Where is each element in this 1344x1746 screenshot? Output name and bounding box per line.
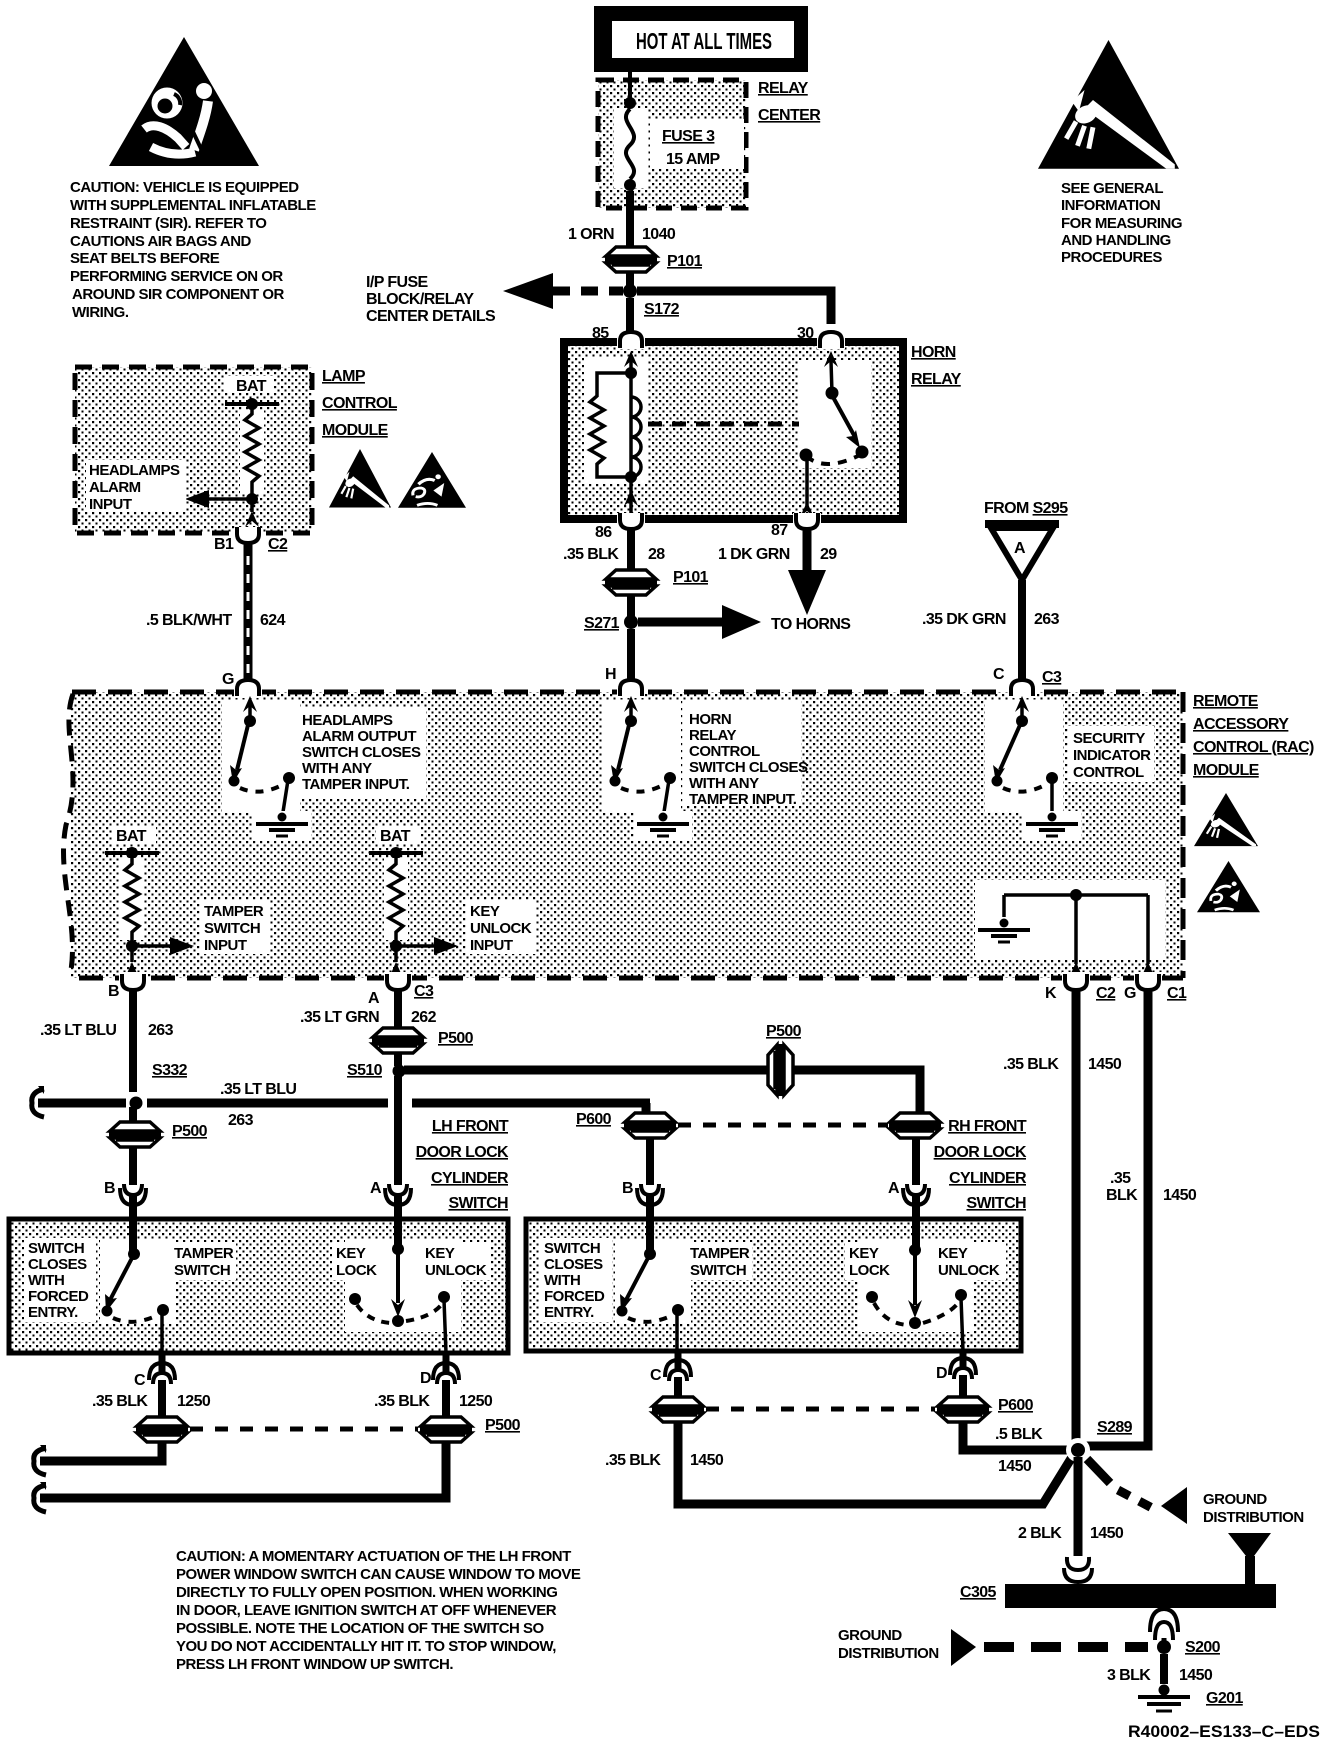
label HEADLAMPS ALARM INPUT xyxy=(86,460,186,513)
svg-text:CAUTION: VEHICLE IS EQUIPPED: CAUTION: VEHICLE IS EQUIPPED xyxy=(70,179,299,196)
svg-text:C305: C305 xyxy=(960,1584,997,1601)
label switch closes with forced entry (LH) xyxy=(24,1238,96,1322)
lamp module resistor xyxy=(240,404,264,499)
wire .35 DK GRN 263 xyxy=(922,580,1060,681)
wire P101 to S172 xyxy=(626,272,634,291)
label key unlock (LH) xyxy=(421,1242,491,1280)
svg-text:AND HANDLING: AND HANDLING xyxy=(1061,232,1171,249)
svg-text:YOU DO NOT ACCIDENTALLY HIT IT: YOU DO NOT ACCIDENTALLY HIT IT. TO STOP … xyxy=(176,1638,556,1655)
connector P101 (top) xyxy=(605,247,703,272)
esd triangle pair near lamp module xyxy=(329,449,391,508)
dashed link P500 pinC-pinD xyxy=(190,1427,418,1432)
svg-text:CLOSES: CLOSES xyxy=(28,1256,87,1273)
svg-text:A: A xyxy=(370,1180,382,1197)
svg-text:DISTRIBUTION: DISTRIBUTION xyxy=(838,1645,939,1662)
relay mechanical link (dashed) xyxy=(648,422,820,427)
wire C305 to S200 xyxy=(1162,1638,1167,1644)
svg-text:BAT: BAT xyxy=(236,378,267,395)
svg-text:S332: S332 xyxy=(152,1062,188,1079)
C305 connector bar xyxy=(960,1584,1276,1608)
svg-text:C: C xyxy=(134,1372,146,1389)
svg-text:CENTER DETAILS: CENTER DETAILS xyxy=(366,308,496,325)
connector bumps below C305 xyxy=(1150,1609,1178,1640)
svg-text:MODULE: MODULE xyxy=(1193,762,1260,779)
svg-text:CENTER: CENTER xyxy=(758,107,821,124)
svg-text:ACCESSORY: ACCESSORY xyxy=(1193,716,1289,733)
pin A (LH box) xyxy=(370,1180,411,1205)
rac switch 2 (horn relay control) xyxy=(603,696,681,812)
note triangle near lamp module xyxy=(398,452,466,508)
key lock switch (RH) xyxy=(858,1219,974,1351)
svg-text:FROM S295: FROM S295 xyxy=(984,500,1068,517)
wire 3 BLK 1450 xyxy=(1107,1654,1213,1684)
dashed link P600 pinC-pinD xyxy=(706,1407,935,1412)
label tamper switch (RH) xyxy=(686,1242,752,1280)
wire pin C to left hook xyxy=(34,1441,162,1475)
svg-text:.35 DK GRN: .35 DK GRN xyxy=(922,611,1006,628)
sir caution triangle xyxy=(109,37,259,166)
svg-text:P600: P600 xyxy=(998,1397,1034,1414)
svg-text:TAMPER INPUT.: TAMPER INPUT. xyxy=(302,776,410,793)
svg-text:624: 624 xyxy=(260,612,286,629)
svg-text:263: 263 xyxy=(148,1022,174,1039)
svg-text:WITH: WITH xyxy=(544,1272,580,1289)
tamper switch (RH) xyxy=(615,1219,691,1351)
label I/P FUSE BLOCK/RELAY CENTER DETAILS xyxy=(366,274,496,325)
wire S510 right run xyxy=(404,1070,920,1113)
pin 30 xyxy=(797,325,845,349)
svg-text:INPUT: INPUT xyxy=(89,496,132,513)
wire S271 to pin H xyxy=(627,629,635,681)
wire 1 ORN 1040 xyxy=(626,191,634,247)
pin A / C3 (bottom) xyxy=(368,972,434,1007)
svg-text:P600: P600 xyxy=(576,1111,612,1128)
svg-text:REMOTE: REMOTE xyxy=(1193,693,1259,710)
pin A (RH box) xyxy=(888,1180,929,1205)
svg-text:CONTROL: CONTROL xyxy=(322,395,398,412)
label tamper switch input xyxy=(200,900,270,954)
wire pin C .35 BLK 1250 xyxy=(92,1380,211,1418)
svg-text:BLK: BLK xyxy=(1106,1187,1138,1204)
ground (rac internal) xyxy=(975,917,1033,946)
splice S510 xyxy=(347,1052,406,1079)
headlamps alarm output node xyxy=(185,490,259,527)
svg-text:1450: 1450 xyxy=(690,1452,724,1469)
svg-text:C: C xyxy=(650,1367,662,1384)
svg-text:DOOR LOCK: DOOR LOCK xyxy=(416,1144,509,1161)
svg-text:262: 262 xyxy=(411,1009,437,1026)
wire pin C1 down (long) xyxy=(1086,988,1197,1446)
splice S332 xyxy=(130,1062,188,1110)
wire hook (left, S332 branch) xyxy=(32,1089,44,1117)
svg-text:KEY: KEY xyxy=(425,1245,455,1262)
key unlock input node xyxy=(389,937,458,978)
svg-text:R40002–ES133–C–EDS: R40002–ES133–C–EDS xyxy=(1128,1722,1320,1741)
power feed box HOT AT ALL TIMES xyxy=(594,6,808,72)
svg-text:WIRING.: WIRING. xyxy=(72,304,129,321)
esd triangle (rac) xyxy=(1194,793,1258,846)
svg-text:1450: 1450 xyxy=(1163,1187,1197,1204)
pin 85 xyxy=(592,325,645,349)
connector P600 (left half) xyxy=(576,1111,676,1138)
connector P600 (pin D) xyxy=(937,1375,1034,1422)
ground (rac switch 1) xyxy=(253,811,311,840)
wire pin D .35 BLK 1250 xyxy=(374,1380,493,1418)
svg-text:KEY: KEY xyxy=(849,1245,879,1262)
pin H (top) xyxy=(605,666,645,698)
svg-text:D: D xyxy=(420,1370,431,1387)
ground G201 xyxy=(1138,1685,1243,1712)
svg-text:BAT: BAT xyxy=(116,828,147,845)
svg-text:CYLINDER: CYLINDER xyxy=(949,1170,1027,1187)
svg-text:HORN: HORN xyxy=(689,711,731,728)
svg-text:1450: 1450 xyxy=(1090,1525,1124,1542)
svg-text:.35 LT BLU: .35 LT BLU xyxy=(220,1081,296,1098)
svg-text:TAMPER: TAMPER xyxy=(174,1245,234,1262)
arrow to horns xyxy=(638,605,851,639)
svg-text:CONTROL (RAC): CONTROL (RAC) xyxy=(1193,739,1314,756)
svg-text:LH FRONT: LH FRONT xyxy=(432,1118,509,1135)
svg-text:P101: P101 xyxy=(667,253,703,270)
label key lock (RH) xyxy=(845,1242,895,1280)
svg-text:SWITCH: SWITCH xyxy=(448,1195,508,1212)
arrow to I/P fuse block details xyxy=(503,273,623,309)
label switch closes with forced entry (RH) xyxy=(540,1238,612,1322)
svg-text:85: 85 xyxy=(592,325,609,342)
pin C (LH box bottom) xyxy=(134,1353,175,1389)
svg-text:ALARM OUTPUT: ALARM OUTPUT xyxy=(302,728,416,745)
svg-text:LOCK: LOCK xyxy=(336,1262,377,1279)
label key lock (LH) xyxy=(332,1242,382,1280)
svg-text:RELAY: RELAY xyxy=(911,371,962,388)
wire 1 DK GRN 29 to horns xyxy=(718,528,837,615)
svg-text:FUSE 3: FUSE 3 xyxy=(662,128,715,145)
svg-text:INDICATOR: INDICATOR xyxy=(1073,747,1151,764)
svg-text:MODULE: MODULE xyxy=(322,422,389,439)
svg-text:B1: B1 xyxy=(214,536,234,553)
wire .35 LT GRN 262 (pin A down) xyxy=(300,988,437,1028)
wire .5 BLK/WHT 624 xyxy=(146,543,286,681)
pin C (RH box bottom) xyxy=(650,1351,691,1384)
connector P600 (pin C) xyxy=(652,1377,704,1422)
svg-text:.5 BLK/WHT: .5 BLK/WHT xyxy=(146,612,232,629)
arrow from ground distribution (lower) xyxy=(838,1627,1148,1666)
svg-text:K: K xyxy=(1045,985,1057,1002)
svg-text:SEAT BELTS BEFORE: SEAT BELTS BEFORE xyxy=(70,250,220,267)
svg-text:INPUT: INPUT xyxy=(470,937,513,954)
svg-text:ENTRY.: ENTRY. xyxy=(544,1304,594,1321)
wire C1 leg into S289 xyxy=(1086,1442,1148,1446)
svg-text:C: C xyxy=(993,666,1005,683)
svg-text:CYLINDER: CYLINDER xyxy=(431,1170,509,1187)
wire pin K down (long) xyxy=(1003,988,1122,1450)
svg-text:HORN: HORN xyxy=(911,344,956,361)
connector P500 (inline) xyxy=(766,1023,802,1096)
resistor (tamper input) xyxy=(120,853,144,946)
svg-text:TAMPER: TAMPER xyxy=(690,1245,750,1262)
note triangle (rac) xyxy=(1197,861,1260,912)
svg-text:KEY: KEY xyxy=(470,903,500,920)
wire pin D to left hook xyxy=(34,1441,446,1512)
svg-text:.5 BLK: .5 BLK xyxy=(995,1426,1043,1443)
svg-text:CLOSES: CLOSES xyxy=(544,1256,603,1273)
svg-text:87: 87 xyxy=(771,522,788,539)
svg-text:C3: C3 xyxy=(414,983,434,1000)
svg-text:PERFORMING SERVICE ON OR: PERFORMING SERVICE ON OR xyxy=(70,268,283,285)
svg-text:DIRECTLY TO FULLY OPEN POSITIO: DIRECTLY TO FULLY OPEN POSITION. WHEN WO… xyxy=(176,1584,557,1601)
connector P500 (pin C) xyxy=(136,1417,188,1442)
svg-text:G: G xyxy=(1124,985,1136,1002)
rac module dashed border xyxy=(64,692,1183,978)
wire S332 to right (jump at S510 wire) xyxy=(147,1081,650,1129)
bat feed 2 (key unlock) xyxy=(369,827,423,859)
svg-text:.35 BLK: .35 BLK xyxy=(374,1393,430,1410)
svg-text:GROUND: GROUND xyxy=(838,1627,902,1644)
svg-text:BLOCK/RELAY: BLOCK/RELAY xyxy=(366,291,474,308)
svg-text:SWITCH: SWITCH xyxy=(174,1262,230,1279)
svg-text:GROUND: GROUND xyxy=(1203,1491,1267,1508)
wire P500 to LH pin B xyxy=(129,1146,137,1219)
pin G (top) xyxy=(222,671,262,698)
svg-text:TAMPER INPUT.: TAMPER INPUT. xyxy=(689,791,797,808)
svg-text:ALARM: ALARM xyxy=(89,479,141,496)
label LAMP CONTROL MODULE xyxy=(322,368,398,439)
svg-text:263: 263 xyxy=(1034,611,1060,628)
svg-text:HEADLAMPS: HEADLAMPS xyxy=(89,462,180,479)
pin B (RH box) xyxy=(622,1180,663,1205)
svg-text:1 DK GRN: 1 DK GRN xyxy=(718,546,790,563)
horn relay box xyxy=(564,342,903,519)
connector P600 (right half) xyxy=(889,1113,941,1138)
svg-text:15 AMP: 15 AMP xyxy=(666,151,721,168)
svg-text:LOCK: LOCK xyxy=(849,1262,890,1279)
relay coil branch wire xyxy=(584,351,648,484)
svg-text:FOR MEASURING: FOR MEASURING xyxy=(1061,215,1182,232)
wire S510 down to LH pin A (jump at S332 wire) xyxy=(394,1076,402,1219)
svg-text:SWITCH: SWITCH xyxy=(966,1195,1026,1212)
svg-text:DOOR LOCK: DOOR LOCK xyxy=(934,1144,1027,1161)
svg-text:3 BLK: 3 BLK xyxy=(1107,1667,1151,1684)
svg-text:WITH SUPPLEMENTAL INFLATABLE: WITH SUPPLEMENTAL INFLATABLE xyxy=(70,197,316,214)
svg-text:POSSIBLE. NOTE THE LOCATION OF: POSSIBLE. NOTE THE LOCATION OF THE SWITC… xyxy=(176,1620,545,1637)
label horn relay control xyxy=(683,700,808,808)
splice S172 xyxy=(623,284,680,318)
svg-text:IN DOOR, LEAVE IGNITION SWITCH: IN DOOR, LEAVE IGNITION SWITCH AT OFF WH… xyxy=(176,1602,557,1619)
label security indicator control xyxy=(1068,726,1154,782)
svg-text:30: 30 xyxy=(797,325,814,342)
LH front door lock cylinder switch box xyxy=(9,1219,508,1353)
svg-text:CONTROL: CONTROL xyxy=(1073,764,1144,781)
svg-text:1040: 1040 xyxy=(642,226,676,243)
svg-text:SWITCH CLOSES: SWITCH CLOSES xyxy=(302,744,421,761)
svg-text:263: 263 xyxy=(228,1112,254,1129)
label key unlock input xyxy=(466,900,536,954)
tamper switch (LH) xyxy=(100,1219,176,1353)
svg-text:86: 86 xyxy=(595,524,612,541)
svg-text:S510: S510 xyxy=(347,1062,383,1079)
svg-text:.35 BLK: .35 BLK xyxy=(563,546,619,563)
svg-text:WITH ANY: WITH ANY xyxy=(302,760,372,777)
svg-text:INFORMATION: INFORMATION xyxy=(1061,197,1160,214)
sir caution text xyxy=(70,179,316,321)
connector bumps at C305 xyxy=(1064,1557,1092,1582)
svg-text:.35 LT GRN: .35 LT GRN xyxy=(300,1009,379,1026)
svg-text:P500: P500 xyxy=(438,1030,474,1047)
connector P500 (left branch) xyxy=(109,1107,208,1147)
lamp module BAT feed xyxy=(224,376,279,410)
svg-text:I/P FUSE: I/P FUSE xyxy=(366,274,429,291)
rac module body fill xyxy=(70,692,1183,978)
svg-text:.35 BLK: .35 BLK xyxy=(92,1393,148,1410)
svg-text:P500: P500 xyxy=(766,1023,802,1040)
svg-text:SEE GENERAL: SEE GENERAL xyxy=(1061,180,1163,197)
svg-text:D: D xyxy=(936,1365,947,1382)
svg-text:SWITCH CLOSES: SWITCH CLOSES xyxy=(689,759,808,776)
svg-text:S200: S200 xyxy=(1185,1639,1221,1656)
pin C / C3 (top) xyxy=(993,666,1062,698)
svg-text:INPUT: INPUT xyxy=(204,937,247,954)
pin B (LH box) xyxy=(104,1180,146,1205)
svg-text:1450: 1450 xyxy=(998,1458,1032,1475)
wire 2 BLK 1450 xyxy=(1018,1457,1124,1556)
rac switch 1 (headlamps alarm output) xyxy=(222,696,300,812)
svg-text:B: B xyxy=(104,1180,115,1197)
svg-text:AROUND SIR COMPONENT OR: AROUND SIR COMPONENT OR xyxy=(72,286,285,303)
svg-text:1450: 1450 xyxy=(1179,1667,1213,1684)
svg-text:WITH: WITH xyxy=(28,1272,64,1289)
svg-text:TO HORNS: TO HORNS xyxy=(771,616,851,633)
svg-text:S271: S271 xyxy=(584,615,620,632)
esd triangle top right xyxy=(1038,40,1179,169)
relay center fuse block (dashed box) xyxy=(598,80,746,208)
key lock switch (LH) xyxy=(345,1219,461,1353)
pin 87 xyxy=(771,513,821,539)
svg-text:PRESS LH FRONT WINDOW UP SWITC: PRESS LH FRONT WINDOW UP SWITCH. xyxy=(176,1656,453,1673)
esd handling text xyxy=(1061,180,1182,266)
relay resistor xyxy=(590,373,638,513)
connector P500 (pin D) xyxy=(420,1417,521,1442)
wire P101 to S271 xyxy=(627,595,635,622)
pin B (bottom) xyxy=(108,972,147,1000)
relay coil xyxy=(631,397,641,477)
wire .35 BLK 28 xyxy=(627,528,635,570)
label headlamps alarm output xyxy=(296,708,426,798)
svg-text:1 ORN: 1 ORN xyxy=(568,226,614,243)
svg-text:G201: G201 xyxy=(1206,1690,1243,1707)
label key unlock (RH) xyxy=(934,1242,1006,1280)
svg-text:29: 29 xyxy=(820,546,837,563)
svg-text:.35 LT BLU: .35 LT BLU xyxy=(40,1022,116,1039)
label LH FRONT DOOR LOCK CYLINDER SWITCH xyxy=(416,1118,509,1212)
pin K / C2 (bottom) xyxy=(1045,972,1116,1002)
splice S271 xyxy=(584,615,638,632)
svg-text:LAMP: LAMP xyxy=(322,368,366,385)
svg-text:C2: C2 xyxy=(268,536,288,553)
pin 86 xyxy=(595,513,645,541)
relay switch contact xyxy=(799,351,871,517)
label REMOTE ACCESSORY CONTROL (RAC) MODULE xyxy=(1193,693,1314,779)
svg-text:DISTRIBUTION: DISTRIBUTION xyxy=(1203,1509,1304,1526)
rac internal ground circuit (K / C1) xyxy=(975,880,1165,978)
svg-text:P101: P101 xyxy=(673,569,709,586)
svg-text:B: B xyxy=(108,983,119,1000)
svg-text:1450: 1450 xyxy=(1088,1056,1122,1073)
svg-text:S172: S172 xyxy=(644,301,680,318)
svg-text:SECURITY: SECURITY xyxy=(1073,730,1145,747)
svg-text:UNLOCK: UNLOCK xyxy=(938,1262,1000,1279)
svg-text:RH FRONT: RH FRONT xyxy=(948,1118,1027,1135)
svg-text:WITH ANY: WITH ANY xyxy=(689,775,759,792)
svg-text:HEADLAMPS: HEADLAMPS xyxy=(302,712,393,729)
svg-text:UNLOCK: UNLOCK xyxy=(425,1262,487,1279)
svg-text:SWITCH: SWITCH xyxy=(28,1240,84,1257)
wire fuse feed xyxy=(628,72,632,103)
fuse F3 element xyxy=(614,97,744,191)
svg-text:SWITCH: SWITCH xyxy=(544,1240,600,1257)
wire RH pin D to S289 xyxy=(963,1421,1070,1475)
caution note (power window) xyxy=(176,1548,581,1673)
RH front door lock cylinder switch box xyxy=(526,1219,1021,1351)
svg-text:S289: S289 xyxy=(1097,1419,1133,1436)
svg-text:.35 BLK: .35 BLK xyxy=(605,1452,661,1469)
svg-text:PROCEDURES: PROCEDURES xyxy=(1061,249,1162,266)
wire S172 to pin 30 xyxy=(637,291,831,324)
svg-text:RESTRAINT (SIR). REFER TO: RESTRAINT (SIR). REFER TO xyxy=(70,215,267,232)
pin D (RH box bottom) xyxy=(936,1351,976,1382)
svg-text:RELAY: RELAY xyxy=(758,80,809,97)
svg-text:G: G xyxy=(222,671,234,688)
label RH FRONT DOOR LOCK CYLINDER SWITCH xyxy=(934,1118,1027,1212)
svg-text:A: A xyxy=(368,990,380,1007)
svg-text:C2: C2 xyxy=(1096,985,1116,1002)
svg-text:HOT AT ALL TIMES: HOT AT ALL TIMES xyxy=(636,28,772,54)
lamp control module box xyxy=(75,367,312,533)
bat feed 1 (tamper) xyxy=(105,827,159,859)
splice S289 xyxy=(1066,1419,1133,1462)
svg-text:BAT: BAT xyxy=(380,828,411,845)
label HORN RELAY xyxy=(911,344,962,388)
svg-text:H: H xyxy=(605,666,616,683)
svg-text:.35: .35 xyxy=(1110,1170,1131,1187)
svg-text:UNLOCK: UNLOCK xyxy=(470,920,532,937)
pin B1 C2 xyxy=(214,527,288,553)
svg-text:2 BLK: 2 BLK xyxy=(1018,1525,1062,1542)
svg-text:CONTROL: CONTROL xyxy=(689,743,760,760)
rac switch 3 (security indicator) xyxy=(985,696,1063,812)
svg-text:FORCED: FORCED xyxy=(28,1288,89,1305)
svg-text:B: B xyxy=(622,1180,633,1197)
wire RH pin C to S289 xyxy=(605,1421,1072,1504)
label tamper switch (LH) xyxy=(170,1242,236,1280)
ground (rac switch 3) xyxy=(1023,811,1081,840)
svg-text:SWITCH: SWITCH xyxy=(204,920,260,937)
svg-text:P500: P500 xyxy=(485,1417,521,1434)
wire P600 to RH pin B xyxy=(646,1137,654,1219)
dashed arrow to ground distribution (upper) xyxy=(1087,1459,1304,1526)
svg-text:.35 BLK: .35 BLK xyxy=(1003,1056,1059,1073)
svg-text:CAUTION: A MOMENTARY ACTUATION: CAUTION: A MOMENTARY ACTUATION OF THE LH… xyxy=(176,1548,571,1565)
connector P500 (pin A branch) xyxy=(372,1028,474,1053)
svg-text:ENTRY.: ENTRY. xyxy=(28,1304,78,1321)
svg-text:C1: C1 xyxy=(1167,985,1187,1002)
splice S200 xyxy=(1157,1639,1221,1656)
connector P101 (lower) xyxy=(605,569,709,595)
label RELAY CENTER xyxy=(758,80,821,124)
resistor (key unlock input) xyxy=(384,853,408,946)
svg-text:FORCED: FORCED xyxy=(544,1288,605,1305)
svg-text:1250: 1250 xyxy=(459,1393,493,1410)
wire P600 to RH pin A xyxy=(912,1137,920,1219)
